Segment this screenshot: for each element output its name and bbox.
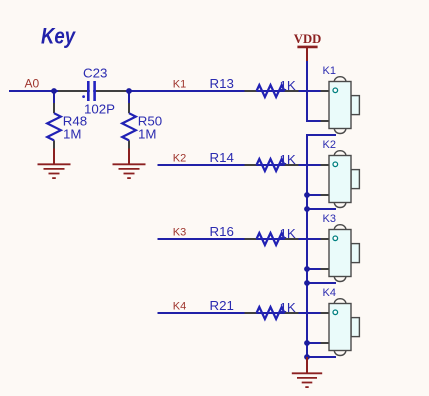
svg-text:VDD: VDD [294,32,322,46]
svg-text:R13: R13 [210,76,234,91]
svg-text:1K: 1K [280,300,296,315]
svg-text:K1: K1 [323,65,336,77]
svg-text:R14: R14 [210,150,234,165]
svg-text:Key: Key [41,23,76,48]
svg-text:1M: 1M [138,127,156,142]
svg-text:K2: K2 [323,139,336,151]
svg-text:1K: 1K [280,226,296,241]
svg-text:A0: A0 [25,76,40,90]
svg-text:C23: C23 [83,66,107,81]
svg-text:1M: 1M [63,127,81,142]
svg-text:1K: 1K [280,78,296,93]
svg-text:R21: R21 [210,298,234,313]
svg-text:K3: K3 [173,226,186,238]
svg-text:1K: 1K [280,152,296,167]
svg-text:K4: K4 [323,287,336,299]
svg-text:102P: 102P [84,102,115,117]
svg-text:K4: K4 [173,300,186,312]
svg-text:K3: K3 [323,213,336,225]
svg-text:R16: R16 [210,224,234,239]
svg-text:K1: K1 [173,78,186,90]
svg-text:K2: K2 [173,152,186,164]
